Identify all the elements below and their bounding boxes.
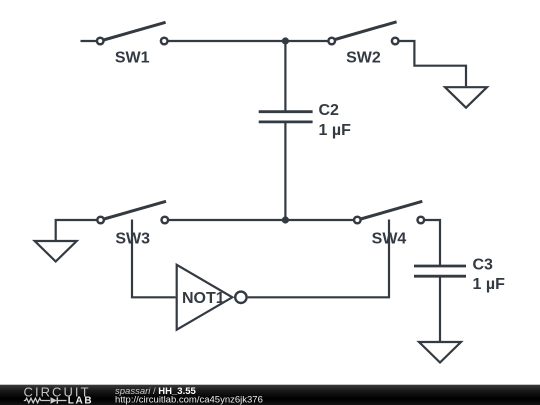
wire: NOT1 output to feedback right riser [248,220,389,298]
svg-text:1 µF: 1 µF [473,276,506,293]
wire: SW3 left terminal to ground [56,220,97,240]
inverter gate NOT1 [177,265,247,330]
node: bottom junction at C2 [282,216,289,223]
capacitor C3 [414,257,505,293]
ground (left) [35,241,77,262]
svg-text:http://circuitlab.com/ca45ynz6: http://circuitlab.com/ca45ynz6jk376 [115,394,263,405]
wire: SW1 left open stub [81,40,98,42]
svg-text:SW1: SW1 [115,49,150,66]
svg-text:C3: C3 [473,257,494,274]
wire: C2 top branch [284,41,286,111]
svg-text:1 µF: 1 µF [319,122,352,139]
footer bar [0,385,540,405]
switch SW4 [354,201,424,247]
capacitor C2 [259,102,351,139]
ground (top right) [445,87,487,108]
switch SW2 [328,22,398,67]
wire: C3 bottom to ground [439,277,441,341]
svg-text:SW2: SW2 [346,49,381,66]
node: top junction at C2 [282,37,289,44]
switch SW3 [97,201,168,247]
wire: top rail SW1 to SW2 [168,40,329,42]
svg-text:C2: C2 [319,102,340,119]
ground (bottom right) [419,342,461,363]
logo resistor zigzag [24,398,50,403]
wire: C2 bottom branch [284,123,286,220]
wire: SW4 right terminal to C3 [424,220,440,265]
wire: SW2 right terminal to ground drop [399,41,466,86]
logo diode [51,397,58,403]
switch SW1 [97,22,168,66]
svg-text:LAB: LAB [68,396,93,405]
wire: bottom rail SW3 to SW4 [169,219,355,221]
svg-text:NOT1: NOT1 [182,290,225,307]
wire: feedback left drop to NOT1 input [132,220,176,298]
